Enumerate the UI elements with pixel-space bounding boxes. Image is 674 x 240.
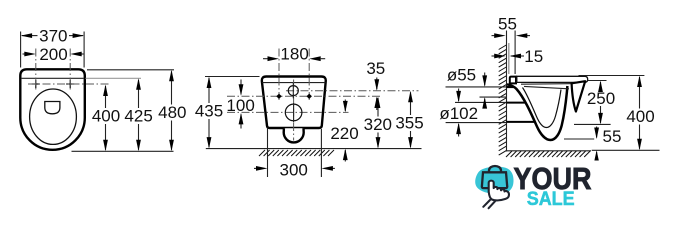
svg-text:200: 200 — [39, 45, 67, 64]
inlet pipe lines (o55) — [446, 86, 507, 88]
svg-text:425: 425 — [124, 107, 152, 126]
o55 stub — [507, 86, 519, 88]
outlet pipe lines (o102) — [455, 101, 506, 103]
inlet circle — [288, 86, 298, 96]
hand cursor — [489, 181, 509, 201]
seat hinge line — [22, 77, 84, 79]
svg-text:370: 370 — [39, 27, 67, 46]
dim 180 — [263, 44, 325, 63]
outlet circle — [285, 104, 302, 121]
hole cross left — [32, 80, 40, 88]
lid slab — [517, 76, 588, 82]
seat underline — [521, 83, 580, 86]
fixing dash-dot left — [278, 49, 280, 102]
svg-text:300: 300 — [280, 161, 308, 180]
dim 370 — [21, 27, 85, 68]
ground hatch — [259, 150, 334, 156]
bag body — [482, 172, 507, 188]
fixing diamond right — [307, 94, 312, 99]
svg-text:320: 320 — [364, 115, 392, 134]
svg-text:ø55: ø55 — [447, 66, 476, 85]
dim 320 — [364, 97, 392, 149]
dim 220 — [330, 100, 358, 162]
425 extension (hinge) — [86, 77, 142, 79]
bowl outer profile — [507, 84, 567, 140]
svg-text:55: 55 — [603, 127, 622, 146]
dim 435 — [195, 77, 260, 149]
svg-text:250: 250 — [587, 89, 615, 108]
svg-text:355: 355 — [395, 113, 423, 132]
hole cross right — [66, 80, 74, 88]
wall hatch — [499, 45, 507, 155]
dim 55 bottom — [564, 127, 621, 161]
dim 100 — [226, 80, 254, 129]
fixing diamond left — [276, 94, 281, 99]
dim 15 — [492, 47, 544, 66]
svg-text:400: 400 — [92, 107, 120, 126]
logo blob — [475, 167, 513, 195]
svg-text:15: 15 — [524, 47, 543, 66]
svg-text:SALE: SALE — [527, 189, 575, 210]
inner bowl line — [523, 88, 562, 128]
floor extension right — [592, 149, 660, 151]
dim 480 — [158, 70, 186, 152]
fixing dash-dot right — [308, 49, 310, 102]
dim 300 — [254, 128, 335, 180]
dim 200 — [23, 45, 84, 91]
finished wall gray line — [508, 43, 510, 74]
floor hatch — [506, 151, 590, 157]
floor line — [506, 150, 591, 152]
svg-text:220: 220 — [330, 124, 358, 143]
flush cup — [45, 102, 60, 114]
dim 355 — [395, 91, 423, 149]
front body outline — [262, 77, 326, 129]
dim 400 right — [579, 76, 655, 151]
ground line — [206, 148, 422, 150]
480 top extension — [87, 69, 174, 71]
seat opening oval — [30, 89, 77, 144]
wall face line — [506, 31, 508, 152]
svg-text:55: 55 — [498, 15, 517, 34]
svg-text:ø102: ø102 — [439, 104, 478, 123]
dim 425 — [124, 78, 152, 151]
dim 250 — [574, 81, 615, 125]
wrist — [483, 200, 495, 208]
hole center dash-dot line — [28, 83, 109, 85]
top view body outline — [20, 69, 85, 150]
bottom extent line — [72, 150, 174, 152]
inner top line — [262, 82, 325, 84]
hinge block — [510, 77, 516, 84]
svg-text:480: 480 — [158, 103, 186, 122]
dim 400 — [92, 85, 120, 152]
front rim lip — [572, 81, 586, 111]
svg-text:435: 435 — [195, 102, 223, 121]
dim 35 — [366, 59, 385, 110]
dim 55 top — [492, 15, 531, 38]
svg-text:400: 400 — [626, 107, 654, 126]
o102 stub — [507, 102, 532, 104]
line B fixing axis — [227, 95, 382, 97]
line C outlet axis — [227, 111, 349, 113]
outlet U pipe — [284, 128, 304, 142]
center dash-dot — [293, 80, 295, 141]
svg-text:180: 180 — [280, 44, 308, 63]
svg-text:35: 35 — [366, 59, 385, 78]
dim o55 — [447, 66, 487, 109]
bag handle — [489, 166, 501, 172]
dim o102 — [439, 89, 478, 137]
line A inlet axis — [286, 90, 419, 92]
bolt line — [514, 31, 516, 75]
svg-text:100: 100 — [226, 96, 254, 115]
